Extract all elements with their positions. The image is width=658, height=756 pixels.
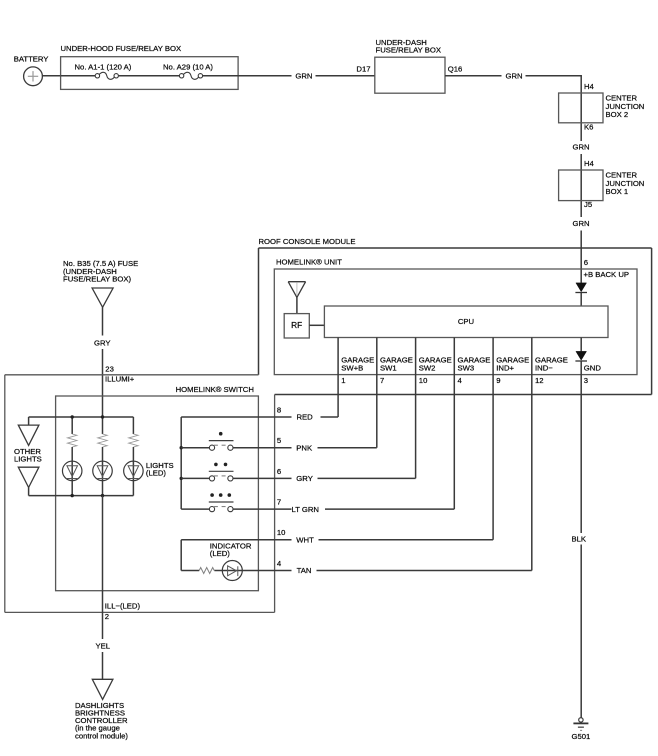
svg-text:GRN: GRN bbox=[573, 143, 590, 152]
svg-text:H4: H4 bbox=[584, 82, 595, 91]
svg-text:D17: D17 bbox=[356, 64, 370, 73]
svg-text:ILL−(LED): ILL−(LED) bbox=[105, 602, 141, 611]
svg-text:GRY: GRY bbox=[94, 338, 111, 347]
svg-text:BLK: BLK bbox=[572, 534, 587, 543]
svg-text:G501: G501 bbox=[572, 732, 591, 741]
svg-text:ROOF CONSOLE MODULE: ROOF CONSOLE MODULE bbox=[259, 237, 356, 246]
svg-text:1: 1 bbox=[341, 376, 345, 385]
svg-text:6: 6 bbox=[584, 258, 588, 267]
svg-text:6: 6 bbox=[277, 467, 281, 476]
svg-text:12: 12 bbox=[535, 376, 544, 385]
svg-text:8: 8 bbox=[277, 405, 281, 414]
svg-text:J5: J5 bbox=[584, 200, 592, 209]
svg-text:LT GRN: LT GRN bbox=[292, 505, 319, 514]
svg-text:FUSE/RELAY BOX: FUSE/RELAY BOX bbox=[376, 46, 442, 55]
svg-text:5: 5 bbox=[277, 436, 281, 445]
svg-text:HOMELINK® SWITCH: HOMELINK® SWITCH bbox=[176, 385, 254, 394]
svg-text:10: 10 bbox=[419, 376, 428, 385]
svg-text:4: 4 bbox=[458, 376, 463, 385]
svg-text:LIGHTS: LIGHTS bbox=[14, 454, 42, 463]
svg-text:RF: RF bbox=[291, 320, 302, 330]
svg-text:WHT: WHT bbox=[296, 536, 314, 545]
svg-text:10: 10 bbox=[277, 528, 286, 537]
svg-text:BOX 1: BOX 1 bbox=[606, 187, 629, 196]
svg-text:YEL: YEL bbox=[96, 642, 111, 651]
svg-text:2: 2 bbox=[105, 612, 109, 621]
svg-text:7: 7 bbox=[277, 498, 281, 507]
svg-text:RED: RED bbox=[297, 413, 314, 422]
svg-text:ILLUMI+: ILLUMI+ bbox=[105, 375, 135, 384]
svg-text:BATTERY: BATTERY bbox=[14, 55, 49, 64]
svg-text:UNDER-HOOD FUSE/RELAY BOX: UNDER-HOOD FUSE/RELAY BOX bbox=[61, 44, 182, 53]
svg-text:CPU: CPU bbox=[458, 317, 474, 326]
svg-text:GRY: GRY bbox=[296, 474, 313, 483]
svg-text:3: 3 bbox=[584, 376, 588, 385]
svg-text:HOMELINK® UNIT: HOMELINK® UNIT bbox=[276, 257, 342, 266]
svg-text:TAN: TAN bbox=[297, 566, 312, 575]
svg-text:9: 9 bbox=[496, 376, 500, 385]
svg-text:SW+B: SW+B bbox=[341, 364, 363, 373]
svg-text:H4: H4 bbox=[584, 159, 595, 168]
svg-text:(LED): (LED) bbox=[146, 468, 167, 477]
svg-text:K6: K6 bbox=[584, 123, 593, 132]
svg-text:GRN: GRN bbox=[506, 72, 523, 81]
svg-text:(LED): (LED) bbox=[210, 549, 231, 558]
svg-text:IND+: IND+ bbox=[496, 364, 514, 373]
svg-text:4: 4 bbox=[277, 559, 282, 568]
svg-text:GRN: GRN bbox=[573, 219, 590, 228]
svg-text:SW1: SW1 bbox=[380, 364, 397, 373]
svg-text:IND−: IND− bbox=[535, 364, 553, 373]
svg-text:No. A29 (10 A): No. A29 (10 A) bbox=[163, 62, 213, 71]
svg-text:SW3: SW3 bbox=[458, 364, 475, 373]
svg-text:SW2: SW2 bbox=[419, 364, 436, 373]
svg-text:23: 23 bbox=[105, 364, 114, 373]
svg-text:+B BACK UP: +B BACK UP bbox=[584, 270, 630, 279]
svg-text:No. A1-1 (120 A): No. A1-1 (120 A) bbox=[75, 62, 132, 71]
svg-text:PNK: PNK bbox=[296, 443, 313, 452]
svg-text:control module): control module) bbox=[75, 731, 128, 740]
svg-text:FUSE/RELAY BOX): FUSE/RELAY BOX) bbox=[63, 275, 132, 284]
svg-text:GND: GND bbox=[584, 364, 602, 373]
svg-text:7: 7 bbox=[380, 376, 384, 385]
svg-text:Q16: Q16 bbox=[448, 64, 463, 73]
svg-text:GRN: GRN bbox=[295, 72, 312, 81]
svg-text:BOX 2: BOX 2 bbox=[606, 110, 629, 119]
